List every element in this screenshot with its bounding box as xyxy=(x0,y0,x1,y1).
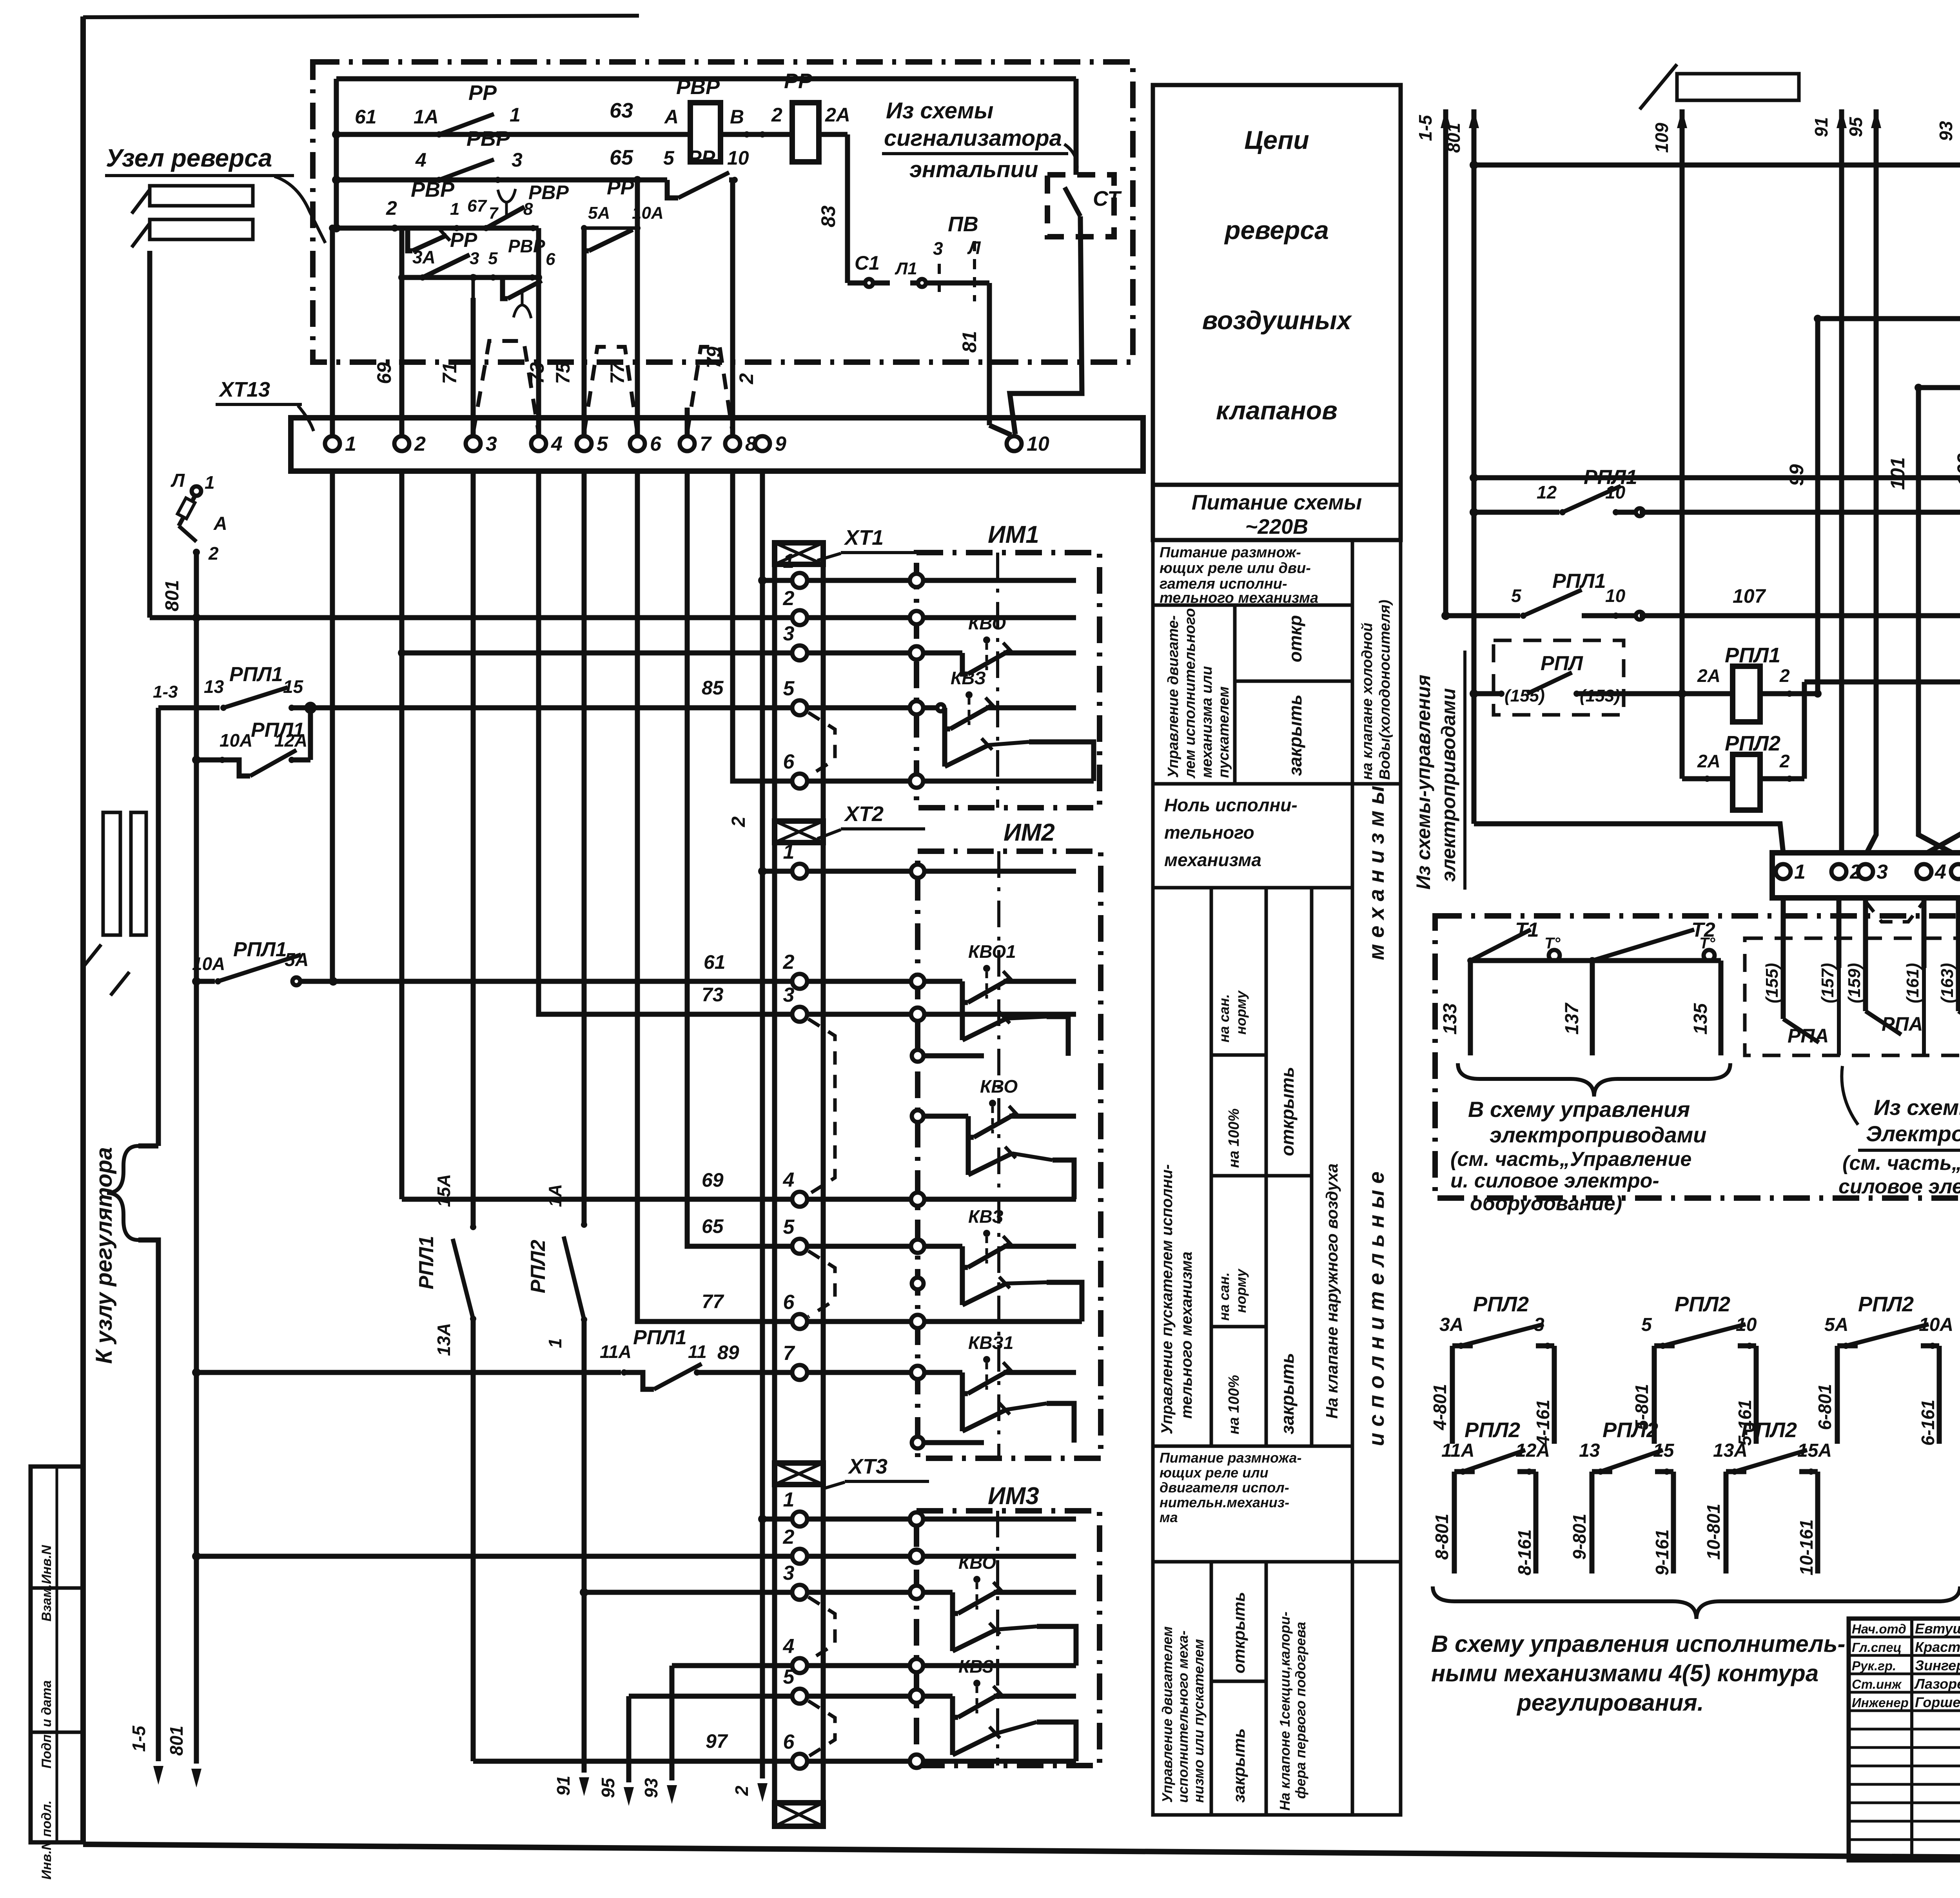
svg-text:РПЛ: РПЛ xyxy=(1541,652,1583,675)
contact РПА 2 xyxy=(1866,952,1924,1055)
svg-text:5: 5 xyxy=(597,433,608,455)
svg-text:2: 2 xyxy=(386,197,397,219)
wire col 1207 to XT13-3 xyxy=(470,274,477,436)
svg-text:(159): (159) xyxy=(1845,963,1864,1003)
svg-text:6-801: 6-801 xyxy=(1815,1384,1835,1430)
svg-text:137: 137 xyxy=(1562,1002,1583,1035)
switch КВЗ ИМ2 xyxy=(962,1206,1082,1322)
note Из схемы управления электроприводами xyxy=(1838,1066,1960,1198)
wire СТ drop to XT13-10 xyxy=(1010,79,1082,434)
sheet border left xyxy=(80,16,86,1844)
svg-text:КВО: КВО xyxy=(980,1076,1018,1097)
svg-text:РР: РР xyxy=(450,229,477,252)
svg-text:1: 1 xyxy=(205,472,215,493)
table cell Питание размножающих реле 2 xyxy=(1153,1446,1352,1562)
svg-text:РВР: РВР xyxy=(466,127,510,150)
contact РПА 1 xyxy=(1783,952,1839,1055)
svg-text:КВЗ: КВЗ xyxy=(968,1206,1004,1227)
wire col 1-5 bottom xyxy=(129,1240,163,1785)
relay coil РПЛ1 xyxy=(1725,644,1822,722)
switch КВО1 ИМ2 xyxy=(962,941,1076,1056)
sheet border top-left segment xyxy=(83,16,639,17)
svg-text:Зингерман: Зингерман xyxy=(1915,1657,1960,1673)
svg-text:Л: Л xyxy=(967,237,981,258)
svg-text:ХТ1: ХТ1 xyxy=(844,526,884,549)
terminals XT2 1-7 xyxy=(783,841,807,1380)
svg-text:1А: 1А xyxy=(545,1184,565,1207)
svg-text:ма: ма xyxy=(1160,1509,1178,1525)
svg-text:(см. часть„Управление и: (см. часть„Управление и xyxy=(1842,1152,1960,1175)
svg-text:4: 4 xyxy=(1935,861,1946,883)
svg-text:2: 2 xyxy=(783,1526,795,1548)
svg-text:энтальпии: энтальпии xyxy=(909,157,1038,182)
svg-text:5: 5 xyxy=(488,249,498,268)
contact РПЛ1 12-10 row xyxy=(1470,466,1960,517)
svg-text:801: 801 xyxy=(166,1726,187,1756)
svg-text:107: 107 xyxy=(1733,585,1766,607)
net label 99 col xyxy=(1786,319,1818,694)
svg-text:ющих реле или дви-: ющих реле или дви- xyxy=(1160,560,1311,576)
svg-text:2А: 2А xyxy=(1697,665,1720,686)
ИМ3 terminals xyxy=(910,1512,923,1768)
svg-text:Ст.инж: Ст.инж xyxy=(1852,1677,1902,1691)
svg-text:6-161: 6-161 xyxy=(1918,1399,1938,1446)
svg-text:4: 4 xyxy=(783,1635,795,1658)
wire 135 xyxy=(1690,961,1721,1055)
svg-text:5: 5 xyxy=(663,147,675,169)
svg-text:97: 97 xyxy=(706,1730,728,1752)
svg-text:3А: 3А xyxy=(412,247,436,267)
svg-text:9-801: 9-801 xyxy=(1569,1514,1590,1560)
wire ИМ2 row5 xyxy=(807,1244,962,1249)
svg-text:10: 10 xyxy=(1605,482,1626,502)
svg-text:11А: 11А xyxy=(600,1341,632,1362)
svg-text:на 100%: на 100% xyxy=(1226,1375,1242,1434)
wire 99 hook xyxy=(1815,689,1820,694)
svg-text:61: 61 xyxy=(355,106,377,128)
svg-text:4: 4 xyxy=(551,433,563,455)
wire ИМ3 row2 xyxy=(807,1554,1076,1559)
svg-text:РПЛ2: РПЛ2 xyxy=(1602,1418,1658,1442)
svg-text:75: 75 xyxy=(552,362,574,384)
svg-text:5А: 5А xyxy=(1824,1314,1848,1335)
svg-text:закрыть: закрыть xyxy=(1277,1353,1298,1434)
svg-text:4: 4 xyxy=(783,1169,795,1191)
svg-text:Управление двигате-: Управление двигате- xyxy=(1165,615,1181,778)
table cell Ноль исполнительного механизма xyxy=(1153,784,1352,888)
wire col 1025 to XT13-2 xyxy=(398,274,405,436)
svg-text:89: 89 xyxy=(717,1341,739,1363)
svg-text:Гл.спец: Гл.спец xyxy=(1852,1640,1902,1655)
svg-text:5: 5 xyxy=(783,677,795,700)
contact РПЛ2 group 4 xyxy=(1430,1293,1554,1446)
svg-text:7: 7 xyxy=(783,1342,795,1365)
wire ИМ3 row3 xyxy=(807,1590,953,1595)
svg-text:13: 13 xyxy=(1579,1440,1600,1461)
svg-text:77: 77 xyxy=(606,361,628,384)
terminal strip XT3 tail xyxy=(775,1803,823,1826)
svg-text:на клапане холодной: на клапане холодной xyxy=(1359,623,1376,780)
svg-text:6: 6 xyxy=(783,750,795,773)
svg-text:13А: 13А xyxy=(434,1323,454,1356)
wire col 109 xyxy=(1651,109,1687,779)
svg-text:2: 2 xyxy=(1779,665,1790,686)
svg-text:РПЛ1: РПЛ1 xyxy=(233,938,287,961)
wire col 1-5 to XT1-2 corner xyxy=(150,613,201,622)
terminal strip XT1 head xyxy=(775,543,823,564)
svg-text:69: 69 xyxy=(373,362,395,384)
table cell Цепи реверса воздушных клапанов xyxy=(1153,85,1401,485)
jumper XT6 3-4 xyxy=(1866,901,1924,922)
svg-text:61: 61 xyxy=(704,951,726,973)
jumper XT2 3-4 xyxy=(808,1019,835,1195)
svg-text:8: 8 xyxy=(523,199,533,219)
wire col 93 right xyxy=(1927,109,1960,853)
svg-text:10: 10 xyxy=(1027,433,1049,455)
svg-text:Т°: Т° xyxy=(1544,935,1561,952)
wire ИМ2 row4 xyxy=(807,1197,1076,1202)
svg-text:Из схемы: Из схемы xyxy=(886,98,993,123)
svg-text:85: 85 xyxy=(702,677,724,699)
svg-text:5А: 5А xyxy=(588,203,610,223)
wire row XT3-1 xyxy=(762,1517,800,1522)
contact РПЛ2 group 10 xyxy=(1703,1418,1832,1575)
ИМ1 terminals xyxy=(910,574,923,788)
wire col 848 end xyxy=(330,471,335,981)
terminal strip XT1-XT3 rails xyxy=(775,543,823,1826)
wire ИМ2 row7a xyxy=(924,1440,984,1445)
svg-text:Горшенино: Горшенино xyxy=(1915,1694,1960,1710)
row3 РВР НЗ contact and РВР fork contact xyxy=(332,178,569,251)
svg-text:1: 1 xyxy=(783,1488,795,1511)
net label 85 xyxy=(702,677,724,699)
svg-text:~220В: ~220В xyxy=(1245,515,1308,538)
jumper XT13 7-8 xyxy=(687,347,733,433)
svg-text:1: 1 xyxy=(545,1338,565,1348)
svg-text:12А: 12А xyxy=(274,730,307,750)
svg-text:ХТ3: ХТ3 xyxy=(848,1455,887,1478)
jumper XT13 5-6 xyxy=(584,347,637,433)
svg-text:11А: 11А xyxy=(1441,1440,1475,1461)
wire top bus xyxy=(336,76,1076,82)
brace К узлу регулятора xyxy=(107,1146,138,1240)
svg-text:Лазоренко: Лазоренко xyxy=(1914,1676,1960,1692)
svg-text:РПЛ2: РПЛ2 xyxy=(527,1240,550,1293)
wire col 1207 to 97 row xyxy=(471,1319,476,1761)
wire ИМ2 row2a xyxy=(924,1053,984,1059)
wire row 69 xyxy=(402,1169,800,1199)
jumper XT13 3-4 xyxy=(473,341,539,433)
svg-text:Воды(холодоносителя): Воды(холодоносителя) xyxy=(1377,600,1393,780)
svg-text:реверса: реверса xyxy=(1224,216,1329,245)
wire col 801 right xyxy=(1443,109,1479,824)
contact РПЛ2 group 6 xyxy=(1815,1293,1953,1446)
svg-text:Т°: Т° xyxy=(1699,935,1715,952)
row4 РР contact and РВР fork contact xyxy=(402,229,555,318)
wire col 1-5 upper xyxy=(147,251,152,618)
note В схему управления электроприводами xyxy=(1450,1097,1706,1215)
ИМ2 terminals xyxy=(911,865,924,1448)
svg-text:3: 3 xyxy=(1877,861,1888,883)
svg-text:РР: РР xyxy=(468,81,497,105)
net label 2 xyxy=(735,373,757,384)
actuator ИМ2 box xyxy=(918,819,1101,1458)
wire col 1490 to XT13-5 xyxy=(582,228,587,436)
wire col 95 right xyxy=(1846,109,1881,853)
svg-text:13А: 13А xyxy=(1713,1440,1748,1461)
wire ИМ3 row5 xyxy=(807,1694,953,1699)
wire col 1490 down xyxy=(582,471,587,1225)
wire ИМ2 row6 xyxy=(807,1319,1082,1324)
net label 101 col xyxy=(1887,388,1952,853)
svg-text:открыть: открыть xyxy=(1277,1067,1298,1156)
net label 801 left xyxy=(162,580,183,611)
svg-text:10А: 10А xyxy=(220,730,252,750)
wire col 1-5 lower xyxy=(138,708,158,1146)
svg-text:3: 3 xyxy=(933,238,943,259)
wire ИМ1 row2 xyxy=(807,615,1076,620)
svg-text:электроприводами: электроприводами xyxy=(1437,688,1459,882)
svg-text:73: 73 xyxy=(702,984,724,1006)
contact РПЛ1 15А-13А on col 1207 xyxy=(415,1174,476,1356)
node Узел реверса label xyxy=(105,144,325,243)
svg-text:РПЛ1: РПЛ1 xyxy=(633,1326,687,1349)
wire ИМ3 row4 xyxy=(807,1663,1076,1668)
wire col 1869 to XT1-6 xyxy=(733,471,800,781)
svg-text:6: 6 xyxy=(650,433,662,455)
svg-text:РПЛ2: РПЛ2 xyxy=(1465,1418,1520,1442)
svg-text:6: 6 xyxy=(783,1731,795,1753)
svg-text:м е х а н и з м ы: м е х а н и з м ы xyxy=(1364,786,1388,960)
svg-text:РПЛ1: РПЛ1 xyxy=(415,1236,438,1289)
contact РПЛ1 10А-5А xyxy=(192,938,800,986)
svg-text:Рук.гр.: Рук.гр. xyxy=(1852,1659,1896,1673)
svg-text:1-5: 1-5 xyxy=(129,1725,149,1752)
net label 71 xyxy=(439,362,461,384)
svg-text:КВО: КВО xyxy=(958,1552,996,1573)
wire col 1025 to 69 row xyxy=(398,471,406,1199)
svg-text:(161): (161) xyxy=(1903,963,1922,1003)
relay РПЛ dashed box xyxy=(1494,640,1624,715)
svg-text:63: 63 xyxy=(610,99,633,122)
svg-text:Цепи: Цепи xyxy=(1244,125,1309,154)
svg-text:Нач.отд: Нач.отд xyxy=(1852,1622,1906,1636)
svg-text:На клапане наружного воздуха: На клапане наружного воздуха xyxy=(1323,1164,1341,1419)
svg-text:7: 7 xyxy=(700,433,712,455)
wire col 1207 down xyxy=(471,471,476,1227)
svg-text:нительн.механиз-: нительн.механиз- xyxy=(1160,1494,1289,1510)
node XT2 label xyxy=(817,802,925,839)
note В схему управления исполнительными механизмами xyxy=(1431,1631,1845,1716)
wire ИМ1 row1 xyxy=(807,578,1076,583)
svg-text:Инженер: Инженер xyxy=(1852,1695,1909,1710)
svg-text:РВР: РВР xyxy=(411,178,455,201)
wire col 91 right xyxy=(1811,109,1847,853)
svg-text:В схему управления: В схему управления xyxy=(1468,1097,1690,1122)
svg-text:3А: 3А xyxy=(1439,1314,1463,1335)
svg-text:Электроприводами: Электроприводами xyxy=(1866,1121,1960,1146)
svg-text:Ноль исполни-: Ноль исполни- xyxy=(1164,795,1298,815)
svg-text:2: 2 xyxy=(1779,751,1790,771)
svg-text:91: 91 xyxy=(553,1776,573,1796)
svg-text:2А: 2А xyxy=(1697,751,1720,771)
svg-text:8-801: 8-801 xyxy=(1432,1514,1452,1560)
svg-text:2: 2 xyxy=(728,816,749,827)
svg-text:норму: норму xyxy=(1233,1268,1249,1313)
svg-text:103: 103 xyxy=(1953,453,1960,486)
terminal strip XT2 head xyxy=(775,821,823,843)
svg-text:6: 6 xyxy=(783,1291,795,1314)
node XT1 label xyxy=(817,526,925,560)
wire row XT1-2 xyxy=(196,615,800,620)
wire row XT3-2 (801) xyxy=(192,1552,800,1561)
table cell Управление двигателем / откр закрыть xyxy=(1153,605,1352,784)
wire col 1753 jumper to XT13-7 xyxy=(685,408,690,436)
node enthalpy signal note xyxy=(882,98,1068,182)
svg-text:На клапоне 1секции,калори-: На клапоне 1секции,калори- xyxy=(1277,1612,1293,1811)
contact РПЛ2 group 9 xyxy=(1569,1418,1675,1575)
svg-text:РПЛ1: РПЛ1 xyxy=(229,663,283,686)
svg-text:10-161: 10-161 xyxy=(1796,1519,1817,1575)
net label 103 col xyxy=(1953,210,1960,853)
svg-text:95: 95 xyxy=(598,1777,618,1798)
svg-text:11: 11 xyxy=(688,1341,707,1362)
svg-text:2: 2 xyxy=(771,104,782,126)
wire col 1753 to 65 row xyxy=(687,471,800,1246)
svg-text:Л: Л xyxy=(171,470,185,491)
svg-text:РПЛ2: РПЛ2 xyxy=(1741,1418,1797,1442)
svg-text:1-3: 1-3 xyxy=(153,682,178,702)
contact РПЛ1 11А-11 row 89 xyxy=(192,1326,800,1389)
wire ИМ2 row1 xyxy=(807,869,1076,874)
wire ИМ2 row7 xyxy=(807,1370,962,1375)
svg-text:3: 3 xyxy=(783,1562,795,1584)
svg-text:133: 133 xyxy=(1440,1003,1461,1035)
svg-text:(155): (155) xyxy=(1762,963,1782,1003)
svg-text:3: 3 xyxy=(486,433,497,455)
svg-text:электроприводами: электроприводами xyxy=(1490,1122,1706,1147)
wire col 1-5 right xyxy=(1415,109,1451,620)
svg-text:Подп. и дата: Подп. и дата xyxy=(39,1680,54,1768)
wire net 83 xyxy=(817,134,848,283)
wire col 1490 lower xyxy=(553,1320,589,1796)
wire row 97 xyxy=(473,1730,800,1761)
wire row XT3-3 xyxy=(584,1590,800,1595)
brace bottom xyxy=(1433,1586,1960,1619)
wire 5А-РР-10А contact xyxy=(581,176,664,251)
node XT13 label xyxy=(216,378,314,431)
svg-text:КВЗ: КВЗ xyxy=(958,1656,994,1677)
signature table xyxy=(1849,1619,1960,1860)
svg-text:механизма: механизма xyxy=(1164,850,1261,870)
jumper XT2 5-6 xyxy=(808,1251,835,1317)
svg-text:Узел реверса: Узел реверса xyxy=(106,144,272,172)
svg-text:лем исполнительного: лем исполнительного xyxy=(1182,608,1198,779)
svg-text:КВЗ1: КВЗ1 xyxy=(968,1332,1014,1353)
terminals XT3 1-6 xyxy=(783,1488,807,1769)
revision flag 1 xyxy=(132,186,253,214)
switch КВЗ ИМ3 xyxy=(953,1656,1076,1761)
svg-text:РВР: РВР xyxy=(676,75,720,99)
svg-text:РВР: РВР xyxy=(528,181,569,203)
wire 95 col xyxy=(598,1696,800,1806)
svg-text:77: 77 xyxy=(702,1291,724,1312)
svg-text:5: 5 xyxy=(1641,1314,1652,1335)
svg-text:Питание размножа-: Питание размножа- xyxy=(1160,1450,1301,1466)
svg-text:99: 99 xyxy=(1786,464,1808,486)
table cell Питание размножающих реле 1 xyxy=(1153,540,1352,606)
svg-text:93: 93 xyxy=(641,1778,661,1798)
wire net 81 xyxy=(958,283,1011,435)
wire row XT2-1 xyxy=(762,869,800,874)
net label 77 xyxy=(606,361,628,384)
wire col 1945 net 2 xyxy=(728,471,768,1802)
wire 133 xyxy=(1440,961,1470,1055)
svg-text:2: 2 xyxy=(414,433,426,455)
jumper XT3 3-4 xyxy=(808,1597,835,1661)
svg-text:3: 3 xyxy=(470,249,479,268)
svg-text:ПВ: ПВ xyxy=(948,212,978,236)
svg-text:3: 3 xyxy=(783,984,795,1006)
svg-text:РР: РР xyxy=(784,69,813,93)
svg-text:3: 3 xyxy=(783,622,795,645)
contact РПЛ2 group 8 xyxy=(1432,1418,1550,1575)
svg-text:69: 69 xyxy=(702,1169,724,1191)
svg-text:71: 71 xyxy=(439,362,461,384)
svg-text:83: 83 xyxy=(817,205,839,227)
svg-text:5: 5 xyxy=(1511,586,1522,606)
svg-text:2: 2 xyxy=(783,951,795,973)
svg-text:Из схемы-управления: Из схемы-управления xyxy=(1412,674,1434,890)
svg-text:93: 93 xyxy=(1936,121,1956,141)
wire ИМ2 row2 xyxy=(807,979,962,984)
revision flag 2 xyxy=(132,219,253,247)
svg-text:сигнализатора: сигнализатора xyxy=(884,125,1062,151)
svg-text:(157): (157) xyxy=(1818,963,1837,1003)
svg-text:В: В xyxy=(730,106,744,128)
svg-text:10: 10 xyxy=(727,147,749,169)
svg-text:СТ: СТ xyxy=(1093,187,1122,210)
wire ИМ3 row6 xyxy=(807,1759,1076,1764)
svg-text:открыть: открыть xyxy=(1230,1592,1248,1673)
wire col 848 to XT13-1 xyxy=(329,225,336,436)
wire net 79 (col 1869) xyxy=(703,180,733,436)
wire row XT4-2 (801) xyxy=(1474,163,1960,168)
svg-text:Управление двигателем: Управление двигателем xyxy=(1159,1626,1175,1803)
wire left bus xyxy=(334,79,339,228)
svg-text:6: 6 xyxy=(546,250,555,269)
svg-text:силовое электрооборудование): силовое электрооборудование) xyxy=(1838,1175,1960,1198)
wires 155-165 into protection xyxy=(1762,898,1960,1003)
node XT3 label xyxy=(821,1455,929,1489)
svg-text:15А: 15А xyxy=(434,1174,454,1207)
switch КВЗ1 ИМ2 xyxy=(962,1332,1076,1443)
wire col 801 left xyxy=(166,552,201,1787)
svg-text:Л1: Л1 xyxy=(895,259,917,278)
wire row XT5-1 (801) xyxy=(1474,475,1960,480)
wire coils common right xyxy=(1802,682,1807,779)
svg-text:ными механизмами 4(5) конту: ными механизмами 4(5) контура xyxy=(1431,1660,1818,1686)
svg-text:РПЛ2: РПЛ2 xyxy=(1675,1293,1730,1316)
svg-text:1: 1 xyxy=(783,841,795,863)
contact РПЛ1 5-10 row 107 xyxy=(1445,570,1960,620)
svg-text:и с п о л н и т е л ь н ы е: и с п о л н и т е л ь н ы е xyxy=(1364,1171,1388,1446)
table cell исполнительные механизмы xyxy=(1352,784,1401,1562)
svg-text:регулирования.: регулирования. xyxy=(1516,1690,1704,1716)
svg-text:на 100%: на 100% xyxy=(1226,1108,1242,1168)
svg-text:норму: норму xyxy=(1233,990,1249,1035)
net label 61 xyxy=(704,951,726,973)
